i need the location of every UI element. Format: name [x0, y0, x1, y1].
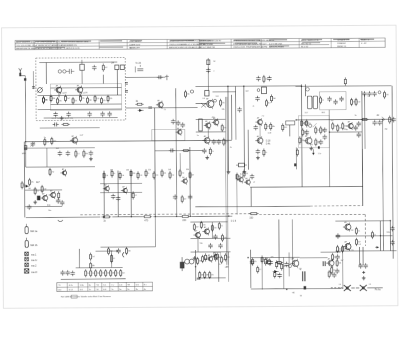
dashed left mark: [331, 286, 342, 288]
resistor R17: [221, 124, 226, 132]
electrolytic E1: [180, 257, 184, 271]
resistor R71: [221, 234, 226, 242]
resistor R4: [50, 95, 55, 103]
title header mark 5: [130, 39, 142, 42]
wire tuner drop b: [81, 75, 83, 84]
capacitor C54: [284, 262, 288, 267]
capacitor C9: [157, 75, 163, 79]
meter rect M1: [236, 163, 247, 167]
resistor R46: [34, 187, 39, 195]
table cell bottom 10: [136, 289, 139, 291]
junction J1: [228, 215, 229, 216]
svg-text:0.3: 0.3: [306, 134, 308, 136]
annotation 14: [344, 129, 348, 131]
resistor R24: [282, 123, 287, 131]
label det2: [266, 144, 271, 146]
wire b4 rail: [218, 254, 220, 282]
svg-text:1k: 1k: [322, 100, 324, 102]
svg-text:68k: 68k: [272, 126, 275, 128]
detector rect: [286, 121, 295, 125]
wire ratio top wire: [295, 85, 391, 88]
title block divider 8: [260, 39, 262, 48]
resistor R44b: [49, 168, 54, 176]
svg-text:5k6: 5k6: [273, 98, 276, 100]
svg-text:7.2: 7.2: [262, 116, 264, 118]
dark blob E5: [37, 196, 40, 201]
capacitor C35: [89, 151, 93, 156]
wire if mid wire: [212, 91, 235, 93]
resistor R66: [243, 170, 248, 178]
capacitor C11: [176, 120, 180, 125]
svg-text:7: 7: [213, 71, 214, 73]
label osc: [135, 63, 141, 65]
capacitor C14: [217, 139, 221, 144]
svg-text:0.1: 0.1: [259, 269, 261, 271]
arrow mark 3: [375, 246, 379, 249]
capacitor C25b: [305, 130, 309, 135]
wire ratio rail a: [300, 84, 303, 187]
annotation 32: [126, 169, 129, 171]
capacitor C49: [390, 240, 394, 245]
transistor T23: [343, 241, 351, 251]
svg-text:0.18: 0.18: [268, 133, 271, 135]
title text 18: [233, 45, 267, 48]
wire shield rail a: [225, 97, 226, 265]
wire interstage drop: [179, 153, 181, 170]
capacitor C31: [357, 132, 361, 137]
label lc1: [36, 182, 40, 184]
title header mark 10: [333, 39, 349, 40]
svg-text:MA 1b: MA 1b: [30, 244, 37, 247]
capacitor C20: [339, 96, 343, 101]
svg-text:1k: 1k: [23, 185, 25, 187]
wire if v1: [227, 86, 230, 169]
resistor R76: [126, 247, 131, 255]
wire interstage wire: [155, 149, 203, 151]
resistor R85: [95, 269, 100, 277]
svg-text:SK 2 62 11: SK 2 62 11: [301, 43, 312, 45]
label r15: [136, 101, 139, 103]
svg-text:68k: 68k: [85, 153, 88, 155]
bracket C: [123, 252, 125, 257]
capacitor C36: [56, 198, 60, 203]
transistor T13: [41, 193, 48, 202]
transistor T14: [49, 190, 56, 199]
transistor T26b: [264, 257, 270, 266]
label P1: [31, 253, 37, 256]
capacitor C15b: [256, 76, 260, 81]
resistor R78: [355, 238, 360, 246]
voltage table column 6: [109, 282, 111, 291]
svg-text:10k: 10k: [82, 98, 85, 100]
annotation 7: [268, 133, 271, 135]
annotation 35: [186, 169, 189, 171]
svg-text:4k7: 4k7: [105, 67, 108, 69]
capacitor C30: [391, 117, 395, 122]
svg-text:Ret 5488 Messwerte Tabelle: Ret 5488 Messwerte Tabelle siehe Blatt 2…: [61, 295, 111, 298]
diode D1: [138, 109, 144, 112]
tuner label t2: [84, 92, 87, 94]
junction D20: [390, 220, 391, 221]
title block divider 4: [126, 40, 128, 49]
arrow mark 2: [382, 117, 385, 122]
annotation 1: [203, 98, 205, 100]
padder C2: [66, 69, 74, 74]
resistor R27: [355, 98, 360, 106]
capacitor C54b: [268, 260, 272, 265]
resistor R9: [87, 96, 92, 104]
blob mark: [294, 163, 296, 166]
resistor R80: [90, 253, 95, 261]
svg-text:68k: 68k: [339, 263, 342, 265]
wire out wire 2: [335, 235, 392, 237]
capacitor C24: [323, 127, 327, 132]
resistor R5: [57, 97, 62, 105]
title header mark 6: [170, 40, 194, 41]
resistor R93: [221, 256, 226, 264]
svg-text:100: 100: [386, 94, 389, 96]
capacitor C54c: [277, 273, 281, 278]
wire cluster wire 1: [100, 182, 142, 184]
wire b6 right rail: [342, 247, 344, 289]
resistor R64: [249, 213, 259, 215]
ground G7: [205, 155, 209, 159]
title header mark 4: [100, 40, 122, 41]
junction D8: [190, 216, 191, 217]
ground G4: [33, 200, 37, 204]
svg-text:0.1: 0.1: [339, 249, 341, 251]
annotation 41: [240, 174, 242, 176]
svg-text:T1: T1: [61, 93, 63, 95]
svg-text:1k: 1k: [374, 235, 376, 237]
transistor T4: [205, 98, 214, 110]
IF can L5: [199, 119, 203, 131]
capacitor C46: [116, 248, 120, 253]
resistor R86: [100, 269, 105, 277]
wire af bottom: [61, 278, 126, 280]
svg-text:1k: 1k: [265, 152, 267, 154]
title text extra 2: [199, 43, 213, 46]
svg-text:6k8: 6k8: [56, 148, 59, 150]
voltage table frame: [57, 282, 153, 291]
capacitor C4: [53, 112, 57, 117]
transistor T7: [202, 135, 210, 145]
annotation 21: [205, 124, 207, 126]
resistor R28: [383, 91, 388, 99]
tuner module dashed outline: [36, 57, 126, 120]
label P4: [31, 271, 37, 274]
capacitor C7b: [107, 111, 111, 116]
resistor R26: [351, 98, 356, 106]
resistor R95: [204, 271, 209, 279]
wire agc long wire: [25, 140, 231, 141]
resistor R34: [360, 118, 368, 120]
dark mark sw: [318, 146, 320, 149]
capacitor C5: [66, 112, 70, 117]
ground G3: [89, 157, 93, 161]
resistor R72: [205, 253, 210, 261]
resistor R61: [101, 216, 111, 218]
title block divider 10: [330, 38, 332, 47]
osc coil can: [80, 60, 85, 75]
svg-text:10.7: 10.7: [305, 112, 308, 114]
wire driver rail: [227, 252, 229, 282]
capacitor C29: [356, 121, 360, 126]
svg-text:5k6: 5k6: [45, 100, 48, 102]
title block divider 3: [98, 40, 100, 49]
wire tuner out wire: [40, 127, 100, 129]
title text 1: [16, 40, 89, 43]
wire mixer wire: [126, 107, 198, 109]
title block divider 9: [298, 39, 300, 48]
resistor R101: [328, 270, 333, 278]
capacitor C37: [60, 200, 64, 205]
table cell bottom 1: [58, 289, 63, 291]
svg-text:50u: 50u: [48, 210, 51, 212]
resistor R26b: [344, 77, 346, 85]
resistor R98b: [252, 258, 257, 266]
junction D16: [247, 257, 248, 258]
title text 16: [129, 46, 140, 49]
switch box: [298, 116, 329, 148]
annotation 48: [386, 232, 390, 234]
plug P3: [25, 263, 29, 267]
osc coil L2: [58, 70, 66, 73]
svg-text:47k: 47k: [245, 173, 248, 175]
junction D7: [176, 216, 177, 217]
capacitor C25: [319, 139, 323, 144]
resistor R18: [223, 138, 228, 146]
svg-text:330: 330: [46, 142, 49, 144]
polarity mark: [362, 271, 365, 274]
annotation 23: [310, 144, 313, 146]
title block divider 5: [166, 39, 168, 48]
capacitor C11b: [180, 122, 184, 127]
arrow down: [312, 149, 315, 155]
resistor R77: [355, 227, 360, 235]
wire tuner row wire2: [51, 103, 122, 105]
transistor T22: [343, 221, 351, 231]
wire tuner top wire: [39, 61, 117, 64]
title block divider 1: [33, 40, 35, 49]
capacitor C40b: [169, 148, 175, 152]
label bus2: [144, 220, 149, 222]
wire lower wire 2: [25, 205, 62, 207]
title block frame: [15, 38, 385, 50]
svg-text:-nt: -nt: [292, 291, 295, 294]
svg-text:47k: 47k: [31, 182, 34, 184]
resistor R38: [389, 116, 394, 124]
transistor T21: [202, 226, 209, 235]
wire pre wire: [101, 246, 156, 248]
annotation 36: [44, 137, 46, 139]
svg-text:0.4: 0.4: [203, 98, 205, 100]
svg-text:RB262 11: RB262 11: [337, 46, 347, 48]
svg-text:10k: 10k: [105, 175, 108, 177]
annotation 40: [48, 210, 51, 212]
dark cap E3: [323, 261, 325, 266]
resistor R91: [197, 257, 202, 265]
wire supply bus mid: [112, 216, 142, 218]
junction D19: [380, 235, 381, 236]
wire driver drop a: [197, 239, 199, 252]
resistor R98d: [257, 266, 262, 274]
small circle n6: [309, 124, 312, 127]
resistor R98: [265, 257, 270, 265]
capacitor C6: [87, 112, 91, 117]
resistor R20b: [263, 75, 268, 83]
resistor R74: [225, 253, 230, 261]
table cell bottom 2: [69, 289, 74, 291]
wire tuner lower wire: [44, 117, 118, 119]
junction D13: [382, 119, 383, 120]
diode D3: [273, 270, 279, 273]
wire box right rail: [361, 149, 363, 206]
svg-text:ma 2r: ma 2r: [31, 271, 37, 274]
resistor R55: [161, 169, 166, 177]
svg-text:0.1: 0.1: [358, 231, 360, 233]
annotation 17: [377, 114, 380, 117]
transistor T2: [75, 84, 83, 94]
svg-text:3n9: 3n9: [245, 91, 248, 93]
svg-text:88.5: 88.5: [322, 112, 325, 114]
annotation 8: [212, 117, 215, 119]
svg-text:ZF 10.7 MHZ FM: ZF 10.7 MHZ FM: [199, 47, 215, 49]
svg-text:0.1: 0.1: [113, 258, 115, 260]
table cell top 2: [69, 285, 74, 287]
capacitor C33: [58, 151, 62, 156]
capacitor C50: [60, 270, 64, 275]
voltage table column 10: [142, 282, 144, 291]
title text 14: [361, 43, 367, 45]
resistor R46b: [58, 191, 60, 199]
table cell top 8: [119, 285, 123, 287]
svg-text:1k: 1k: [219, 264, 221, 266]
resistor R40: [44, 138, 49, 146]
svg-text:T20: T20: [199, 243, 202, 245]
svg-text:0.18: 0.18: [266, 141, 271, 143]
svg-text:10k: 10k: [121, 175, 124, 177]
svg-text:100: 100: [301, 140, 304, 142]
table cell bottom 8: [119, 289, 122, 291]
title text extra 3: [199, 47, 215, 49]
dashed drop right: [364, 215, 366, 246]
if feed rect: [207, 60, 210, 65]
svg-text:47k: 47k: [163, 173, 166, 175]
annotation 42: [253, 182, 255, 184]
label nt: [292, 291, 295, 294]
trimmer C32: [31, 141, 35, 146]
resistor R62: [142, 216, 152, 218]
resistor R47: [41, 185, 46, 193]
svg-text:2n2: 2n2: [181, 173, 184, 175]
label P3: [31, 264, 37, 267]
resistor R37: [342, 122, 347, 130]
title text 15: [16, 47, 80, 50]
annotation 45: [219, 264, 221, 266]
resistor R96: [209, 271, 214, 279]
wire far right rail: [381, 119, 384, 251]
title header mark 3: [61, 41, 91, 42]
tuner text row: [52, 118, 73, 120]
svg-text:100: 100: [139, 175, 142, 177]
resistor R49: [111, 169, 115, 177]
junction D15: [329, 131, 330, 132]
IF can L7: [307, 96, 312, 109]
wire b1 col: [111, 251, 113, 267]
wire mid rail f: [189, 147, 191, 216]
plug P1: [25, 252, 29, 256]
ground G10: [60, 116, 64, 120]
svg-text:2n2: 2n2: [67, 98, 70, 100]
resistor R84: [90, 269, 95, 277]
resistor R10: [94, 95, 99, 103]
title block row line 1: [15, 41, 385, 43]
wire if top wire: [195, 85, 301, 88]
resistor R60: [181, 195, 186, 203]
resistor R32: [320, 126, 325, 134]
resistor R12: [107, 95, 112, 103]
capacitor C13b: [202, 148, 206, 153]
annotation 19: [306, 134, 308, 136]
svg-text:T5: T5: [205, 124, 207, 126]
socket MB1: [25, 224, 28, 234]
resistor R20: [271, 94, 276, 102]
capacitor C58: [363, 263, 367, 268]
wire edge rail: [392, 86, 393, 259]
title block divider 2: [56, 40, 58, 49]
table cell top 7: [111, 285, 115, 287]
wire left rail: [24, 81, 27, 167]
capacitor C18: [327, 96, 331, 101]
AGC rect X2: [120, 65, 124, 70]
wire lm drop: [46, 148, 48, 167]
mixer module box: [152, 129, 185, 141]
svg-text:T22: T22: [350, 230, 353, 232]
junction D9: [227, 86, 228, 87]
capacitor C48: [390, 226, 394, 231]
table cell bottom 5: [96, 289, 99, 291]
svg-text:2n2: 2n2: [51, 172, 54, 174]
transistor T3: [156, 99, 163, 109]
resistor R105: [342, 245, 347, 253]
svg-text:1k8: 1k8: [168, 169, 171, 171]
wire b4 wire: [197, 277, 226, 279]
svg-text:0.1: 0.1: [37, 191, 39, 193]
svg-text:4 - 62: 4 - 62: [361, 43, 367, 45]
label r64: [249, 218, 254, 220]
svg-text:220p: 220p: [344, 129, 348, 131]
table cell top 11: [144, 284, 148, 286]
wire shield rail b: [227, 97, 228, 265]
title text 10: [169, 43, 206, 46]
svg-text:455: 455: [212, 117, 215, 119]
voltage table column 3: [87, 283, 89, 292]
resistor R42: [75, 150, 80, 158]
wire mid rail e: [154, 108, 157, 217]
annotation 11: [305, 112, 308, 114]
title header mark 1: [16, 40, 30, 43]
annotation 18: [385, 129, 388, 131]
voltage table column 8: [125, 282, 127, 291]
svg-text:ma 1: ma 1: [31, 253, 37, 256]
resistor R41: [51, 137, 56, 145]
svg-text:1k: 1k: [333, 270, 335, 272]
svg-text:4k7: 4k7: [191, 175, 194, 177]
svg-text:1k: 1k: [113, 173, 115, 175]
transistor T11: [346, 121, 353, 130]
annotation 25: [351, 250, 354, 252]
